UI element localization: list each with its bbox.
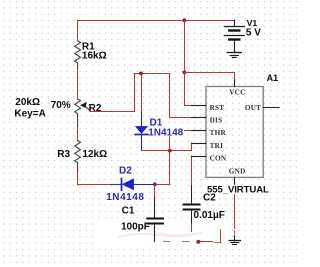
junction dot VCC branch xyxy=(183,71,187,75)
wire: R3 bottom lead xyxy=(77,172,79,185)
wire: DIS column drop xyxy=(169,73,171,118)
junction dot D1 anode xyxy=(139,72,143,76)
junction dot bottom rail xyxy=(196,240,200,244)
wire: GND pin down xyxy=(234,185,236,229)
wire: wiper rail to DIS column xyxy=(134,73,170,75)
wire: wiper riser up xyxy=(134,73,136,111)
R2 wiper arrow xyxy=(84,105,92,112)
label 555_VIRTUAL xyxy=(207,185,270,194)
svg-text:1N4148: 1N4148 xyxy=(148,127,183,138)
wire: TRI riser xyxy=(191,143,193,150)
ground under V1 xyxy=(227,52,241,54)
wire: drop to D2 rail xyxy=(169,151,171,185)
svg-text:RST: RST xyxy=(210,104,225,112)
pin stub DIS xyxy=(192,117,206,119)
wire: riser at rail end xyxy=(220,230,222,243)
wire: R3 bottom corner to D2 xyxy=(78,184,111,186)
svg-text:C2: C2 xyxy=(203,193,216,204)
wire: THR horizontal into chip xyxy=(170,130,192,132)
svg-text:555_VIRTUAL: 555_VIRTUAL xyxy=(207,185,269,196)
svg-text:12kΩ: 12kΩ xyxy=(82,149,107,160)
junction dot D2/C1 xyxy=(153,182,157,186)
svg-text:R3: R3 xyxy=(57,149,70,160)
wire: RST drop from top rail xyxy=(184,20,186,105)
power source V1 xyxy=(234,20,236,26)
wire: R1 top lead from rail xyxy=(77,20,79,41)
junction dot top rail xyxy=(183,18,187,22)
wire: bottom rail red segment xyxy=(198,241,212,243)
svg-text:70%: 70% xyxy=(51,100,71,111)
resistor R1 xyxy=(75,41,81,68)
svg-text:1N4148: 1N4148 xyxy=(106,192,144,203)
wire dash 1 xyxy=(164,241,170,243)
wire: R2 bottom to R3 top xyxy=(77,127,79,141)
svg-text:A1: A1 xyxy=(267,73,279,83)
svg-text:TRI: TRI xyxy=(210,142,224,150)
faint pink scribble artifacts xyxy=(118,232,202,237)
resistor R3 xyxy=(75,140,81,172)
svg-text:VCC: VCC xyxy=(229,88,245,96)
555 timer U1 (A1) body xyxy=(206,87,263,178)
svg-text:5 V: 5 V xyxy=(246,28,261,39)
svg-text:16kΩ: 16kΩ xyxy=(82,51,107,62)
svg-text:D2: D2 xyxy=(119,166,132,177)
label R2 xyxy=(91,105,101,113)
wire: RST horizontal into chip xyxy=(184,105,192,107)
svg-text:0.01µF: 0.01µF xyxy=(194,210,225,221)
pin stub GND xyxy=(234,177,236,184)
ground bottom right xyxy=(234,235,236,241)
wire: THR riser xyxy=(169,131,171,151)
wire: THR/TRI rail xyxy=(141,150,191,152)
svg-text:DIS: DIS xyxy=(210,117,223,125)
capacitor C2 xyxy=(191,156,193,186)
pin stub TRI xyxy=(192,143,206,145)
white patch artifact bottom center xyxy=(96,221,228,247)
svg-text:R2: R2 xyxy=(89,103,102,114)
svg-text:C1: C1 xyxy=(122,206,135,217)
wire: R2 wiper horizontal xyxy=(90,111,134,113)
svg-text:V1: V1 xyxy=(247,18,258,28)
svg-text:100pF: 100pF xyxy=(121,222,150,233)
pin stub CON xyxy=(192,156,206,158)
wire: GND dash xyxy=(234,231,236,234)
svg-text:OUT: OUT xyxy=(245,104,261,112)
value 1N4148 (D1) xyxy=(149,127,184,136)
wire: VCC pin horizontal xyxy=(184,72,234,74)
wire: R1 bottom to R2 top xyxy=(77,68,79,99)
diode D1 xyxy=(141,112,143,127)
svg-text:20kΩ: 20kΩ xyxy=(15,97,40,108)
wire: VCC pin drop xyxy=(234,72,236,80)
wire dash 2 xyxy=(183,241,190,243)
junction dot THR rail xyxy=(168,149,172,153)
pin stub OUT xyxy=(263,107,279,109)
svg-text:Key=A: Key=A xyxy=(14,109,45,120)
pin stub RST xyxy=(192,105,206,107)
svg-text:THR: THR xyxy=(210,129,227,137)
diode D2 xyxy=(111,184,122,186)
wire: DIS horizontal into chip xyxy=(170,117,192,119)
wire: top VCC rail xyxy=(78,20,235,22)
wire: D2 rail segment xyxy=(155,184,170,186)
pin stub THR xyxy=(192,130,206,132)
svg-text:GND: GND xyxy=(229,167,246,175)
svg-text:CON: CON xyxy=(210,155,227,163)
pin stub VCC xyxy=(234,80,236,87)
potentiometer R2 xyxy=(75,99,81,127)
wire: D1 anode feed xyxy=(141,73,143,112)
capacitor C1 xyxy=(154,184,156,197)
